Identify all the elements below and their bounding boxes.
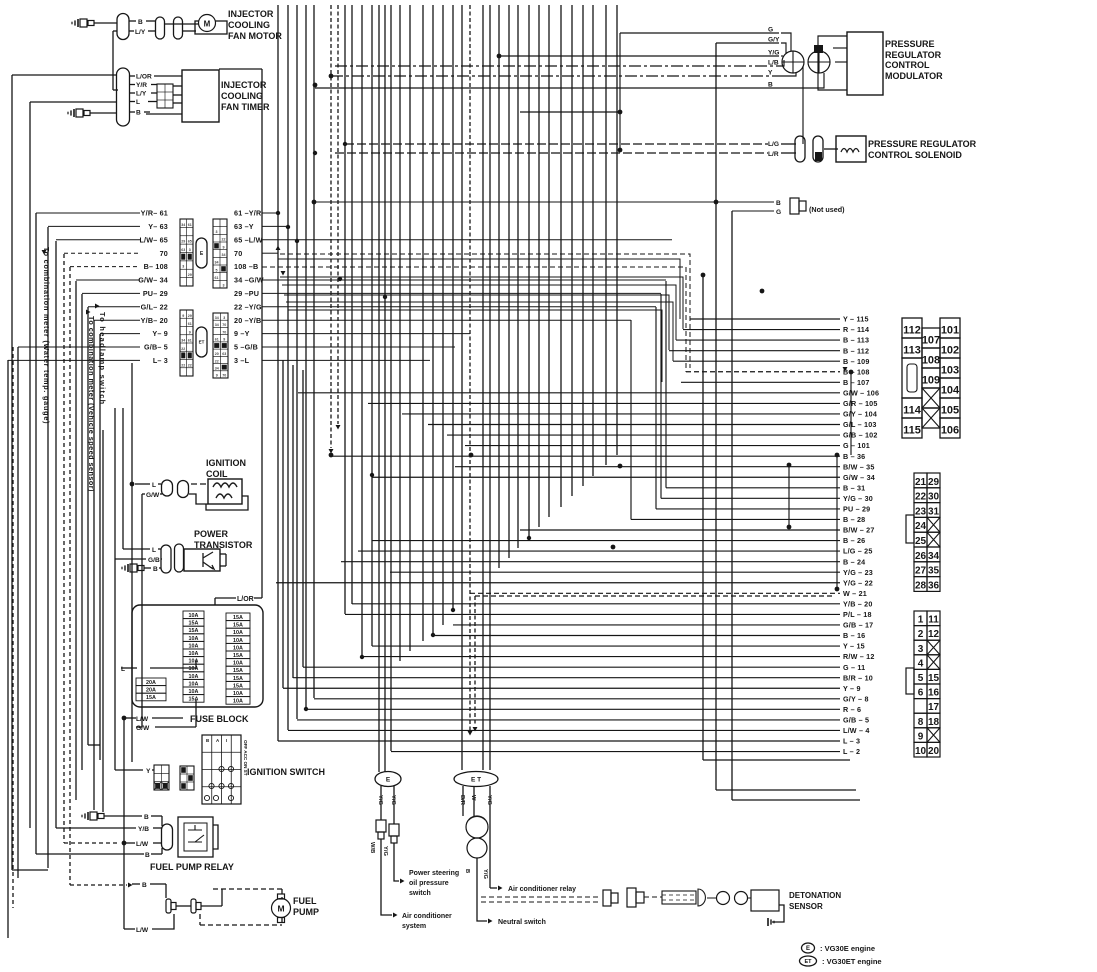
- svg-text:61: 61: [215, 276, 219, 280]
- svg-text:10A: 10A: [233, 691, 243, 697]
- svg-text:M: M: [204, 20, 211, 29]
- svg-text:5: 5: [216, 268, 218, 272]
- svg-text:B: B: [206, 738, 209, 743]
- svg-text:To headlamp switch: To headlamp switch: [98, 312, 107, 405]
- svg-text:22: 22: [188, 363, 192, 367]
- svg-text:10A: 10A: [189, 613, 199, 619]
- svg-text:12: 12: [928, 629, 940, 640]
- svg-text:Y/B– 20: Y/B– 20: [141, 316, 168, 325]
- svg-text:G: G: [776, 209, 781, 216]
- svg-text:15A: 15A: [233, 668, 243, 674]
- svg-text:R – 6: R – 6: [843, 705, 861, 714]
- svg-text:24: 24: [915, 521, 927, 532]
- svg-text:G/L– 22: G/L– 22: [141, 302, 168, 311]
- svg-text:20: 20: [928, 746, 940, 757]
- svg-text:: VG30E engine: : VG30E engine: [820, 944, 875, 953]
- svg-text:3: 3: [182, 265, 184, 269]
- svg-text:35: 35: [928, 566, 940, 577]
- svg-text:20 –Y/B: 20 –Y/B: [234, 316, 261, 325]
- svg-text:ET: ET: [804, 959, 812, 965]
- svg-text:3 –L: 3 –L: [234, 356, 250, 365]
- svg-text:25: 25: [915, 536, 927, 547]
- svg-text:B/W – 35: B/W – 35: [843, 462, 875, 471]
- svg-text:4: 4: [918, 658, 924, 669]
- svg-text:Y– 63: Y– 63: [148, 222, 168, 231]
- svg-text:COOLING: COOLING: [221, 91, 263, 101]
- svg-text:11: 11: [928, 615, 939, 626]
- svg-text:I: I: [226, 738, 227, 743]
- svg-text:22: 22: [181, 363, 185, 367]
- svg-text:B – 36: B – 36: [843, 452, 865, 461]
- svg-text:B: B: [145, 852, 150, 859]
- svg-text:INJECTOR: INJECTOR: [228, 9, 274, 19]
- svg-text:6: 6: [918, 688, 924, 699]
- svg-text:61: 61: [188, 339, 192, 343]
- svg-text:10A: 10A: [189, 681, 199, 687]
- svg-text:POWER: POWER: [194, 529, 229, 539]
- svg-text:G/Y: G/Y: [768, 37, 780, 44]
- svg-text:15A: 15A: [189, 628, 199, 634]
- svg-text:29: 29: [181, 240, 185, 244]
- svg-text:IGNITION: IGNITION: [206, 458, 246, 468]
- svg-text:9: 9: [223, 245, 225, 249]
- svg-text:Neutral switch: Neutral switch: [498, 919, 546, 926]
- svg-text:102: 102: [941, 345, 959, 357]
- svg-text:10A: 10A: [233, 645, 243, 651]
- svg-text:22: 22: [915, 492, 927, 503]
- svg-text:114: 114: [903, 405, 922, 417]
- svg-text:W/B: W/B: [369, 842, 375, 853]
- svg-text:B: B: [138, 19, 143, 26]
- svg-text:34: 34: [928, 551, 940, 562]
- svg-text:B: B: [776, 200, 781, 207]
- svg-text:65: 65: [188, 240, 192, 244]
- svg-text:B – 28: B – 28: [843, 515, 865, 524]
- svg-text:10A: 10A: [189, 659, 199, 665]
- svg-text:PRESSURE: PRESSURE: [885, 39, 935, 49]
- svg-text:To combination meter (Water te: To combination meter (Water temp. gauge): [42, 247, 51, 424]
- svg-text:L: L: [136, 99, 140, 106]
- svg-text:29: 29: [188, 314, 192, 318]
- svg-text:Y/G: Y/G: [486, 795, 492, 805]
- svg-text:Y/B: Y/B: [138, 826, 149, 833]
- svg-text:15: 15: [928, 673, 940, 684]
- svg-text:: VG30ET engine: : VG30ET engine: [822, 957, 882, 966]
- svg-text:L/Y: L/Y: [136, 91, 147, 98]
- svg-text:COIL: COIL: [206, 469, 228, 479]
- svg-text:Y/R: Y/R: [136, 82, 147, 89]
- svg-text:B – 26: B – 26: [843, 536, 865, 545]
- svg-text:P/L – 18: P/L – 18: [843, 610, 872, 619]
- svg-text:10A: 10A: [189, 643, 199, 649]
- svg-text:W: W: [470, 795, 476, 801]
- svg-text:107: 107: [922, 335, 940, 347]
- svg-text:3: 3: [223, 284, 225, 288]
- svg-text:B– 108: B– 108: [144, 262, 168, 271]
- svg-text:G/B – 17: G/B – 17: [843, 621, 873, 630]
- svg-text:E: E: [806, 946, 810, 952]
- svg-text:B: B: [153, 566, 158, 573]
- svg-text:5 –G/B: 5 –G/B: [234, 343, 258, 352]
- svg-text:61: 61: [188, 322, 192, 326]
- svg-text:G/B: G/B: [148, 557, 160, 564]
- svg-text:10A: 10A: [189, 666, 199, 672]
- svg-text:23: 23: [915, 506, 927, 517]
- svg-text:8: 8: [918, 717, 924, 728]
- svg-text:(Not used): (Not used): [809, 205, 845, 214]
- svg-text:29 –PU: 29 –PU: [234, 289, 259, 298]
- svg-text:10A: 10A: [233, 699, 243, 705]
- svg-text:B/R – 10: B/R – 10: [843, 673, 873, 682]
- svg-text:B: B: [136, 110, 141, 117]
- svg-text:G/W: G/W: [136, 725, 150, 732]
- svg-text:10A: 10A: [189, 674, 199, 680]
- svg-text:E T: E T: [471, 776, 481, 783]
- svg-text:G/B – 5: G/B – 5: [843, 716, 869, 725]
- svg-text:34: 34: [181, 223, 185, 227]
- svg-text:5: 5: [918, 673, 924, 684]
- svg-text:63 –Y: 63 –Y: [234, 222, 254, 231]
- svg-text:112: 112: [903, 325, 921, 337]
- svg-text:Y: Y: [146, 768, 151, 775]
- svg-text:G/R – 105: G/R – 105: [843, 399, 878, 408]
- svg-text:3: 3: [216, 230, 218, 234]
- svg-text:34: 34: [222, 253, 226, 257]
- svg-text:L/Y: L/Y: [135, 29, 146, 36]
- svg-text:20: 20: [215, 352, 219, 356]
- svg-text:30: 30: [928, 492, 940, 503]
- svg-text:L – 2: L – 2: [843, 747, 860, 756]
- svg-text:B – 24: B – 24: [843, 557, 865, 566]
- svg-text:Air conditioner relay: Air conditioner relay: [508, 886, 576, 893]
- svg-text:65 –L/W: 65 –L/W: [234, 235, 263, 244]
- svg-text:15A: 15A: [233, 653, 243, 659]
- svg-text:FUEL PUMP RELAY: FUEL PUMP RELAY: [150, 862, 234, 872]
- svg-text:Y – 115: Y – 115: [843, 315, 869, 324]
- svg-text:PU – 29: PU – 29: [843, 505, 870, 514]
- svg-text:15A: 15A: [146, 695, 156, 701]
- svg-text:3: 3: [223, 316, 225, 320]
- svg-text:27: 27: [915, 566, 927, 577]
- svg-text:MODULATOR: MODULATOR: [885, 71, 943, 81]
- svg-text:15A: 15A: [189, 621, 199, 627]
- svg-text:Y/G – 30: Y/G – 30: [843, 494, 873, 503]
- svg-text:70: 70: [222, 323, 226, 327]
- svg-text:system: system: [402, 923, 426, 930]
- svg-text:switch: switch: [409, 890, 431, 897]
- svg-text:9: 9: [189, 330, 191, 334]
- svg-text:Y– 9: Y– 9: [152, 329, 168, 338]
- svg-text:10A: 10A: [233, 638, 243, 644]
- svg-text:G/W – 106: G/W – 106: [843, 388, 879, 397]
- svg-text:FAN TIMER: FAN TIMER: [221, 102, 270, 112]
- svg-text:10: 10: [915, 746, 927, 757]
- svg-text:15A: 15A: [233, 676, 243, 682]
- svg-text:106: 106: [941, 425, 959, 437]
- svg-text:Y/G – 22: Y/G – 22: [843, 578, 873, 587]
- svg-text:G/W – 34: G/W – 34: [843, 473, 875, 482]
- svg-text:L/G – 25: L/G – 25: [843, 547, 873, 556]
- svg-text:15A: 15A: [233, 623, 243, 629]
- svg-text:15A: 15A: [189, 697, 199, 703]
- svg-text:ET: ET: [199, 340, 205, 345]
- svg-text:34: 34: [215, 366, 219, 370]
- svg-text:PUMP: PUMP: [293, 907, 319, 917]
- svg-text:G/B – 102: G/B – 102: [843, 431, 878, 440]
- svg-text:10A: 10A: [233, 630, 243, 636]
- svg-text:CONTROL: CONTROL: [885, 60, 930, 70]
- svg-text:22: 22: [215, 359, 219, 363]
- svg-text:DETONATION: DETONATION: [789, 891, 841, 900]
- svg-text:oil pressure: oil pressure: [409, 880, 449, 887]
- svg-text:G/Y – 8: G/Y – 8: [843, 694, 869, 703]
- svg-text:34: 34: [181, 339, 185, 343]
- svg-text:B/R: B/R: [459, 795, 465, 806]
- svg-text:FUEL: FUEL: [293, 896, 317, 906]
- svg-text:FAN MOTOR: FAN MOTOR: [228, 31, 282, 41]
- svg-text:L/OR: L/OR: [136, 74, 152, 81]
- svg-text:70: 70: [234, 249, 242, 258]
- svg-text:L/OR: L/OR: [237, 596, 254, 603]
- svg-text:E: E: [386, 776, 391, 783]
- svg-text:9 –Y: 9 –Y: [234, 329, 250, 338]
- svg-text:B – 16: B – 16: [843, 631, 865, 640]
- svg-text:70: 70: [222, 330, 226, 334]
- svg-text:22: 22: [181, 347, 185, 351]
- svg-text:61: 61: [188, 223, 192, 227]
- svg-text:To combination meter (Vehicle: To combination meter (Vehicle speed sens…: [87, 316, 96, 492]
- svg-text:108 –B: 108 –B: [234, 262, 258, 271]
- svg-text:REGULATOR: REGULATOR: [885, 50, 942, 60]
- svg-text:L/W: L/W: [136, 927, 149, 934]
- svg-text:29: 29: [188, 273, 192, 277]
- svg-text:G/Y – 104: G/Y – 104: [843, 410, 877, 419]
- svg-text:G – 11: G – 11: [843, 663, 865, 672]
- svg-text:34 –G/W: 34 –G/W: [234, 276, 264, 285]
- svg-text:SENSOR: SENSOR: [789, 902, 823, 911]
- svg-text:21: 21: [915, 477, 927, 488]
- svg-text:Y/G: Y/G: [768, 50, 779, 57]
- svg-text:10A: 10A: [233, 661, 243, 667]
- svg-text:9: 9: [918, 731, 924, 742]
- svg-text:B – 107: B – 107: [843, 378, 870, 387]
- svg-text:61: 61: [215, 338, 219, 342]
- svg-text:34: 34: [215, 316, 219, 320]
- svg-text:G/L – 103: G/L – 103: [843, 420, 877, 429]
- svg-text:IGNITION SWITCH: IGNITION SWITCH: [247, 767, 325, 777]
- svg-text:G/W– 34: G/W– 34: [138, 276, 168, 285]
- svg-text:1: 1: [918, 615, 924, 626]
- svg-text:B: B: [768, 82, 773, 89]
- svg-text:103: 103: [941, 365, 959, 377]
- svg-text:2: 2: [918, 629, 924, 640]
- svg-text:B – 109: B – 109: [843, 357, 870, 366]
- svg-text:Y/R– 61: Y/R– 61: [141, 209, 168, 218]
- svg-text:29: 29: [928, 477, 940, 488]
- svg-text:FUSE BLOCK: FUSE BLOCK: [190, 714, 249, 724]
- svg-text:L – 3: L – 3: [843, 737, 860, 746]
- svg-text:Y/G – 23: Y/G – 23: [843, 568, 873, 577]
- svg-text:9: 9: [182, 314, 184, 318]
- svg-text:G/W: G/W: [146, 492, 160, 499]
- svg-text:26: 26: [915, 551, 927, 562]
- svg-text:15A: 15A: [233, 683, 243, 689]
- svg-text:R/W – 12: R/W – 12: [843, 652, 875, 661]
- svg-text:3: 3: [918, 644, 924, 655]
- svg-text:108: 108: [922, 355, 940, 367]
- svg-text:Y/G: Y/G: [482, 869, 488, 879]
- svg-text:L/W– 65: L/W– 65: [139, 235, 168, 244]
- svg-text:36: 36: [928, 580, 940, 591]
- svg-text:L/R: L/R: [768, 151, 779, 158]
- svg-text:Air conditioner: Air conditioner: [402, 913, 452, 920]
- svg-text:L/G: L/G: [768, 141, 779, 148]
- svg-text:104: 104: [941, 385, 960, 397]
- svg-text:L: L: [152, 482, 156, 489]
- svg-text:INJECTOR: INJECTOR: [221, 80, 267, 90]
- svg-text:L/W: L/W: [136, 716, 149, 723]
- svg-text:Y – 15: Y – 15: [843, 642, 865, 651]
- svg-text:Y – 9: Y – 9: [843, 684, 861, 693]
- svg-text:B – 108: B – 108: [843, 367, 870, 376]
- svg-text:10A: 10A: [189, 636, 199, 642]
- svg-text:28: 28: [915, 580, 927, 591]
- svg-text:10A: 10A: [189, 651, 199, 657]
- svg-text:W – 21: W – 21: [843, 589, 867, 598]
- svg-text:L: L: [121, 666, 125, 673]
- svg-text:G/B– 5: G/B– 5: [144, 343, 168, 352]
- svg-text:Y/G: Y/G: [377, 795, 383, 805]
- svg-text:Power steering: Power steering: [409, 870, 459, 877]
- svg-text:20A: 20A: [146, 688, 156, 694]
- svg-text:Y: Y: [768, 70, 773, 77]
- svg-text:113: 113: [903, 345, 921, 357]
- svg-text:L/B: L/B: [768, 60, 779, 67]
- svg-text:115: 115: [903, 425, 921, 437]
- svg-text:61 –Y/R: 61 –Y/R: [234, 209, 262, 218]
- svg-text:G – 101: G – 101: [843, 441, 870, 450]
- svg-text:9: 9: [223, 338, 225, 342]
- svg-text:34: 34: [215, 261, 219, 265]
- svg-text:22: 22: [222, 238, 226, 242]
- svg-text:15A: 15A: [233, 615, 243, 621]
- svg-text:70: 70: [222, 374, 226, 378]
- svg-text:B – 31: B – 31: [843, 483, 865, 492]
- svg-text:B: B: [464, 869, 470, 873]
- svg-text:9: 9: [216, 374, 218, 378]
- svg-text:16: 16: [928, 688, 940, 699]
- svg-text:PRESSURE REGULATOR: PRESSURE REGULATOR: [868, 139, 977, 149]
- svg-text:L: L: [152, 547, 156, 554]
- svg-text:63: 63: [181, 248, 185, 252]
- svg-text:B – 113: B – 113: [843, 336, 869, 345]
- svg-text:34: 34: [215, 323, 219, 327]
- svg-text:Y/G: Y/G: [382, 846, 388, 856]
- svg-text:105: 105: [941, 405, 959, 417]
- svg-text:CONTROL SOLENOID: CONTROL SOLENOID: [868, 150, 962, 160]
- svg-text:B – 112: B – 112: [843, 346, 869, 355]
- svg-text:PU– 29: PU– 29: [143, 289, 168, 298]
- svg-text:3: 3: [189, 248, 191, 252]
- svg-text:22 –Y/G: 22 –Y/G: [234, 302, 262, 311]
- svg-text:Y/G: Y/G: [390, 795, 396, 805]
- svg-text:G: G: [768, 27, 773, 34]
- svg-text:R – 114: R – 114: [843, 325, 869, 334]
- svg-text:63: 63: [222, 352, 226, 356]
- svg-text:Y/B – 20: Y/B – 20: [843, 599, 873, 608]
- svg-text:18: 18: [928, 717, 940, 728]
- svg-text:109: 109: [922, 375, 940, 387]
- svg-text:10A: 10A: [189, 689, 199, 695]
- svg-text:101: 101: [941, 325, 959, 337]
- svg-text:B/W – 27: B/W – 27: [843, 526, 875, 535]
- svg-text:L/W: L/W: [136, 841, 149, 848]
- svg-text:31: 31: [928, 506, 940, 517]
- svg-text:M: M: [277, 904, 284, 914]
- svg-text:COOLING: COOLING: [228, 20, 270, 30]
- svg-text:20A: 20A: [146, 680, 156, 686]
- svg-text:L/W – 4: L/W – 4: [843, 726, 870, 735]
- svg-text:17: 17: [928, 702, 940, 713]
- svg-text:B: B: [142, 882, 147, 889]
- svg-text:L– 3: L– 3: [153, 356, 168, 365]
- svg-text:B: B: [144, 814, 149, 821]
- svg-text:70: 70: [160, 249, 168, 258]
